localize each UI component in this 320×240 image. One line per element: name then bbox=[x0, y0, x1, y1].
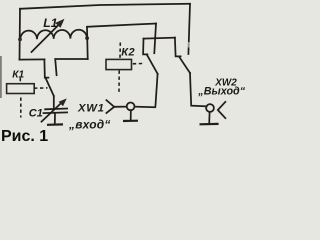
node right junction bbox=[85, 36, 89, 40]
wire K1 fixed feed bbox=[55, 59, 87, 75]
svg-text:XW1: XW1 bbox=[77, 103, 105, 115]
svg-text:К2: К2 bbox=[121, 47, 135, 59]
svg-text:„вход“: „вход“ bbox=[68, 118, 111, 132]
connector XW2 bbox=[206, 102, 225, 124]
wire K1 pole feed bbox=[20, 58, 45, 60]
wire switch1 bottom bbox=[135, 74, 158, 107]
contact K2.1 pole bbox=[143, 39, 147, 55]
relay coil K2 bbox=[106, 59, 132, 69]
dashed link K2 above bbox=[119, 43, 121, 59]
capacitor C1 bbox=[42, 98, 68, 121]
svg-text:Рис. 1: Рис. 1 bbox=[1, 128, 48, 145]
wire top-left vertical bbox=[19, 9, 22, 60]
wire pole rail A1-A2 bbox=[144, 38, 175, 39]
contact K2.2 blade bbox=[179, 57, 190, 73]
wire switch2 bottom bbox=[190, 73, 207, 106]
contact K2.2 pole bbox=[175, 38, 181, 57]
relay coil K1 bbox=[7, 84, 35, 94]
scan edge artifact bbox=[0, 56, 2, 98]
node left junction bbox=[18, 38, 22, 42]
svg-text:К1: К1 bbox=[12, 69, 24, 80]
wire right vertical to contact bbox=[188, 4, 190, 54]
contact K1.1 pole bbox=[44, 59, 48, 77]
wire C1 to ground bbox=[54, 113, 56, 124]
svg-text:L1: L1 bbox=[43, 16, 57, 30]
connector XW1 bbox=[106, 100, 134, 120]
contact K1.1 blade bbox=[46, 78, 54, 96]
ground C1 bbox=[47, 123, 63, 126]
dashed link K1 above bbox=[19, 78, 21, 84]
dashed link K2 below bbox=[118, 71, 120, 93]
wire fade artifact bbox=[188, 42, 191, 48]
dashed link K2 right bbox=[133, 63, 143, 65]
wire top horizontal bbox=[20, 4, 190, 9]
ground XW1 bbox=[123, 120, 138, 123]
ground XW2 bbox=[200, 123, 219, 126]
wire blade to C1 bbox=[53, 96, 55, 109]
wire fixed contact B1 bbox=[154, 24, 156, 54]
dashed link K1 right bbox=[34, 87, 48, 89]
svg-text:С1: С1 bbox=[29, 108, 43, 120]
wire L1 right vertical bbox=[86, 27, 89, 59]
wire rail to contact K2.1 bbox=[87, 24, 156, 27]
contact K2.1 blade bbox=[147, 55, 158, 74]
svg-text:„Выход“: „Выход“ bbox=[197, 86, 245, 98]
dashed link K1 below bbox=[20, 98, 22, 118]
inductor L1 bbox=[20, 19, 87, 52]
